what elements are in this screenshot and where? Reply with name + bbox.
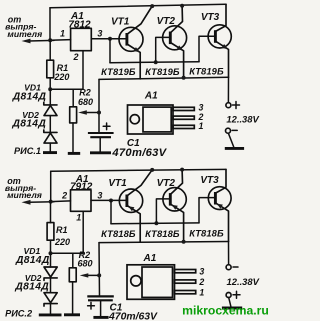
- svg-text:VT1: VT1: [108, 178, 127, 189]
- svg-text:12..38V: 12..38V: [226, 113, 259, 124]
- wire to + terminal: [227, 77, 229, 102]
- resistor R1 220: [49, 41, 51, 60]
- node dot wiper 2: [97, 273, 101, 277]
- svg-text:220: 220: [53, 72, 69, 82]
- node dot bus1 VT2 2: [154, 221, 158, 225]
- wire tee down to R2 (2): [72, 253, 74, 268]
- wire top rail: [50, 4, 226, 8]
- wire VT3 base riser 2: [199, 198, 215, 223]
- svg-text:mikrocxema.ru: mikrocxema.ru: [182, 304, 269, 318]
- wire VT2 base riser 2: [156, 199, 170, 223]
- node dot R1 bottom: [48, 87, 52, 91]
- op-amp A1 regulator box 7812: [71, 28, 92, 50]
- wire tee down to R2: [72, 89, 74, 107]
- wire VT3 base riser: [199, 36, 215, 62]
- wire emitter bus (bus2) 2: [99, 242, 229, 243]
- node dot wiper: [97, 111, 101, 115]
- svg-text:мителя: мителя: [7, 29, 42, 39]
- svg-text:мителя: мителя: [7, 190, 42, 200]
- input arrow left 2: [29, 201, 54, 204]
- wire top rail 2: [51, 169, 226, 171]
- wire pin 1 down and left to R1/VD1 2: [51, 211, 84, 253]
- resistor R1 220 (2): [50, 203, 52, 223]
- svg-text:220: 220: [54, 237, 70, 247]
- node dot rail VT1: [150, 4, 154, 8]
- svg-text:Д814Д: Д814Д: [12, 119, 47, 130]
- svg-text:A1: A1: [144, 90, 158, 101]
- resistor R2 680 (trimmer) 2: [69, 268, 76, 282]
- node dot bus2 VT2 2: [182, 240, 186, 244]
- wire VT2 base riser: [156, 37, 171, 62]
- R2 wiper arrow: [85, 112, 99, 114]
- ground bar output: [225, 147, 244, 150]
- svg-text:2: 2: [61, 190, 67, 200]
- svg-text:7812: 7812: [68, 20, 91, 31]
- wire base bus (bus1) 2: [111, 222, 199, 225]
- svg-text:КТ819Б: КТ819Б: [145, 66, 180, 77]
- capacitor C1 470m/63V electrolytic (2): [87, 295, 114, 297]
- svg-text:2: 2: [198, 277, 204, 287]
- wire - terminal to ground: [228, 133, 233, 147]
- node dot on pin3 wire 2: [109, 199, 113, 203]
- svg-text:680: 680: [77, 259, 92, 269]
- svg-text:VT3: VT3: [200, 175, 219, 186]
- wire R2 bottom to ground 2: [72, 282, 74, 314]
- svg-text:Д814Д: Д814Д: [14, 282, 49, 293]
- terminal + output: [226, 103, 231, 108]
- svg-text:3: 3: [199, 267, 204, 277]
- svg-text:1: 1: [199, 288, 204, 298]
- svg-text:3: 3: [97, 29, 102, 39]
- wire pin 2 down and left to R1/VD1: [50, 51, 83, 89]
- svg-text:R2: R2: [79, 87, 91, 97]
- wire input to regulator pin 1: [50, 39, 71, 42]
- wire base drop VT1 2: [110, 201, 112, 224]
- svg-text:1: 1: [60, 29, 65, 39]
- svg-text:2: 2: [72, 52, 78, 62]
- node dot bus2 VT2: [182, 76, 186, 80]
- ground bar under C1: [90, 151, 111, 154]
- wire R2 bottom to ground: [72, 123, 74, 152]
- wire VD1 to VD2: [49, 116, 51, 133]
- terminal + output 2: [226, 293, 231, 298]
- svg-text:470m/63V: 470m/63V: [108, 311, 158, 321]
- svg-text:7912: 7912: [70, 181, 93, 192]
- ground bar under C1 (2): [93, 316, 108, 319]
- svg-text:РИС.2: РИС.2: [5, 308, 33, 318]
- wire top rail riser 2: [50, 171, 52, 201]
- svg-text:A1: A1: [143, 253, 157, 264]
- ground bar under R2 (2): [64, 313, 80, 316]
- R2 wiper arrow 2: [87, 274, 100, 276]
- svg-text:VT3: VT3: [201, 12, 220, 23]
- wire input to regulator pin 2: [51, 200, 71, 203]
- wire VD2 to ground: [49, 143, 51, 151]
- wire to - terminal 2: [228, 242, 230, 265]
- resistor R2 680 (trimmer): [70, 107, 77, 123]
- ground bar under VD2: [43, 151, 57, 154]
- svg-text:КТ819Б: КТ819Б: [189, 65, 224, 76]
- svg-text:3: 3: [97, 190, 102, 200]
- input arrow left: [29, 39, 54, 42]
- node dot rail VT2: [180, 4, 184, 8]
- node dot input 2: [49, 200, 53, 204]
- node dot on pin3 wire: [108, 37, 112, 41]
- node dot bus1 VT2: [154, 60, 158, 64]
- op-amp A1 regulator box 7912: [71, 190, 92, 212]
- wire pin 3 output to VT1 base: [91, 38, 127, 40]
- node dot input: [48, 38, 52, 42]
- svg-text:VT1: VT1: [111, 16, 130, 27]
- wire emitter bus (bus2): [99, 77, 229, 79]
- wire base drop VT1: [109, 39, 111, 63]
- wire base bus (bus1): [110, 62, 199, 63]
- svg-text:КТ819Б: КТ819Б: [101, 66, 136, 77]
- svg-text:КТ818Б: КТ818Б: [189, 228, 224, 239]
- svg-text:Д814Д: Д814Д: [15, 255, 50, 266]
- wire VD2 to ground 2: [50, 304, 52, 314]
- ground bar under R2: [68, 152, 80, 155]
- svg-text:470m/63V: 470m/63V: [111, 147, 167, 159]
- wire top rail riser: [49, 8, 51, 41]
- wire bus2 left drop to wiper/C1 2: [98, 243, 101, 297]
- svg-text:КТ818Б: КТ818Б: [145, 228, 180, 239]
- node dot rail VT2 2: [180, 168, 184, 172]
- svg-text:12..38V: 12..38V: [227, 276, 260, 287]
- svg-text:КТ818Б: КТ818Б: [101, 228, 136, 239]
- node dot R1 bottom 2: [49, 251, 53, 255]
- ground bar under VD2 (2): [39, 313, 62, 316]
- wire pin 3 output to VT1 base 2: [91, 199, 127, 201]
- svg-text:1: 1: [199, 121, 204, 131]
- node dot rail VT1 2: [150, 168, 154, 172]
- ground bar output 2: [222, 307, 242, 310]
- terminal - output 2: [226, 265, 231, 270]
- wire VD1 to VD2 (2): [50, 278, 52, 293]
- svg-text:680: 680: [78, 97, 93, 107]
- wire + terminal to ground 2: [229, 298, 231, 307]
- capacitor C1 470m/63V electrolytic: [88, 132, 114, 134]
- svg-text:1: 1: [76, 212, 81, 222]
- svg-text:Д814Д: Д814Д: [12, 92, 47, 103]
- terminal - output: [226, 128, 231, 133]
- wire bus2 left drop to wiper/C1: [98, 79, 100, 132]
- svg-text:РИС.1: РИС.1: [14, 146, 41, 156]
- svg-text:R1: R1: [56, 225, 68, 235]
